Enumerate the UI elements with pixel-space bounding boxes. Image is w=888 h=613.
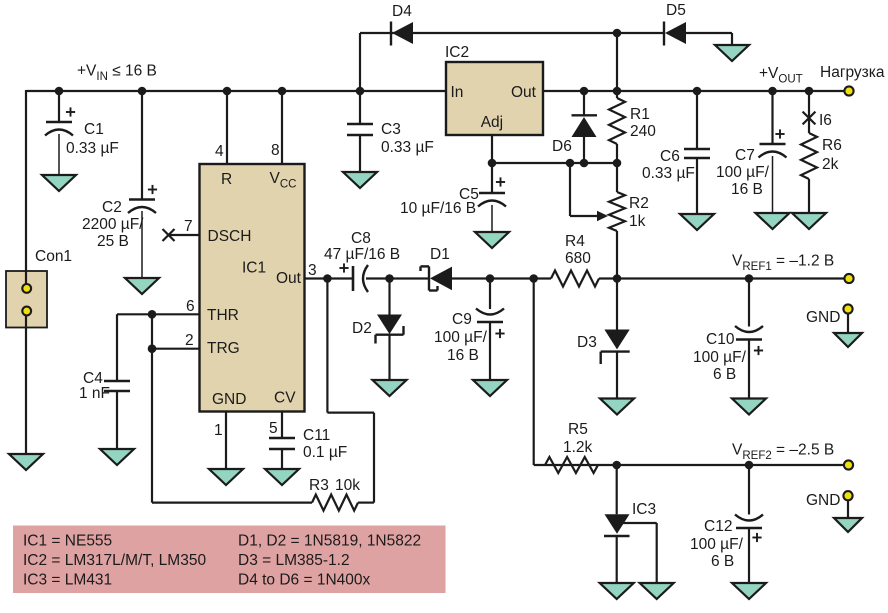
svg-text:100 µF/: 100 µF/ (716, 164, 770, 181)
svg-text:6 B: 6 B (711, 553, 734, 570)
svg-text:C10: C10 (706, 331, 735, 348)
svg-text:C1: C1 (84, 121, 104, 138)
svg-text:1 nF: 1 nF (79, 385, 110, 402)
svg-text:DSCH: DSCH (208, 228, 252, 245)
svg-text:100 µF/: 100 µF/ (690, 536, 744, 553)
svg-text:C11: C11 (303, 427, 330, 444)
svg-text:1k: 1k (629, 213, 646, 230)
svg-text:C8: C8 (351, 230, 371, 247)
svg-text:D5: D5 (666, 2, 686, 19)
svg-text:100 µF/: 100 µF/ (434, 329, 488, 346)
svg-text:0.33 µF: 0.33 µF (381, 139, 434, 156)
svg-text:D1: D1 (430, 246, 450, 263)
svg-text:In: In (451, 84, 464, 101)
svg-text:R4: R4 (565, 233, 585, 250)
svg-text:Adj: Adj (481, 114, 503, 131)
svg-text:D4 to D6 = 1N400x: D4 to D6 = 1N400x (238, 572, 371, 589)
svg-text:TRG: TRG (207, 340, 240, 357)
svg-text:IC3 = LM431: IC3 = LM431 (23, 572, 112, 589)
svg-text:0.33 µF: 0.33 µF (642, 165, 695, 182)
svg-text:D3 = LM385-1.2: D3 = LM385-1.2 (238, 552, 350, 569)
svg-text:GND: GND (806, 309, 840, 326)
svg-text:R: R (221, 171, 232, 188)
svg-text:0.1 µF: 0.1 µF (303, 444, 347, 461)
svg-text:16 B: 16 B (447, 347, 479, 364)
svg-text:Out: Out (511, 84, 537, 101)
svg-text:CV: CV (274, 390, 296, 407)
svg-text:IC2 = LM317L/M/T, LM350: IC2 = LM317L/M/T, LM350 (23, 552, 206, 569)
svg-text:IC3: IC3 (632, 501, 656, 518)
svg-text:1: 1 (214, 422, 223, 439)
svg-text:680: 680 (565, 250, 591, 267)
svg-text:C6: C6 (660, 148, 680, 165)
svg-text:R5: R5 (568, 421, 588, 438)
svg-text:THR: THR (207, 307, 239, 324)
svg-text:C2: C2 (102, 199, 122, 216)
svg-text:D1, D2 = 1N5819, 1N5822: D1, D2 = 1N5819, 1N5822 (238, 533, 421, 550)
svg-text:Нагрузка: Нагрузка (820, 64, 885, 81)
svg-text:C12: C12 (704, 518, 732, 535)
svg-text:7: 7 (184, 218, 193, 235)
svg-text:D4: D4 (392, 3, 412, 20)
svg-text:10k: 10k (335, 477, 360, 494)
svg-text:IC1: IC1 (242, 260, 266, 277)
svg-text:25 B: 25 B (97, 233, 129, 250)
svg-text:0.33 µF: 0.33 µF (66, 140, 119, 157)
svg-text:Out: Out (276, 270, 302, 287)
svg-text:IC1 = NE555: IC1 = NE555 (23, 533, 112, 550)
svg-text:240: 240 (630, 123, 656, 140)
svg-text:R2: R2 (629, 195, 649, 212)
svg-text:C7: C7 (735, 147, 755, 164)
svg-text:6: 6 (186, 298, 195, 315)
svg-text:2k: 2k (822, 156, 839, 173)
svg-text:10 µF/16 B: 10 µF/16 B (400, 200, 476, 217)
svg-text:IC2: IC2 (445, 44, 469, 61)
svg-text:D6: D6 (552, 138, 572, 155)
svg-text:GND: GND (806, 492, 840, 509)
svg-text:R1: R1 (630, 106, 650, 123)
svg-text:R3: R3 (309, 477, 329, 494)
svg-text:D3: D3 (577, 334, 597, 351)
svg-text:C3: C3 (381, 121, 401, 138)
svg-text:R6: R6 (822, 137, 842, 154)
svg-text:I6: I6 (819, 112, 832, 129)
svg-text:8: 8 (271, 142, 280, 159)
svg-text:6 B: 6 B (713, 366, 736, 383)
svg-text:Con1: Con1 (35, 248, 72, 265)
svg-text:2200 µF/: 2200 µF/ (82, 216, 144, 233)
svg-text:C9: C9 (452, 311, 472, 328)
svg-text:16 B: 16 B (731, 181, 763, 198)
svg-text:47 µF/16 B: 47 µF/16 B (324, 246, 400, 263)
svg-text:1.2k: 1.2k (563, 439, 593, 456)
svg-text:D2: D2 (352, 320, 372, 337)
svg-text:100 µF/: 100 µF/ (693, 349, 747, 366)
svg-text:3: 3 (308, 262, 317, 279)
svg-text:5: 5 (269, 420, 278, 437)
svg-text:4: 4 (215, 143, 224, 160)
svg-text:2: 2 (185, 332, 194, 349)
svg-text:GND: GND (212, 391, 246, 408)
